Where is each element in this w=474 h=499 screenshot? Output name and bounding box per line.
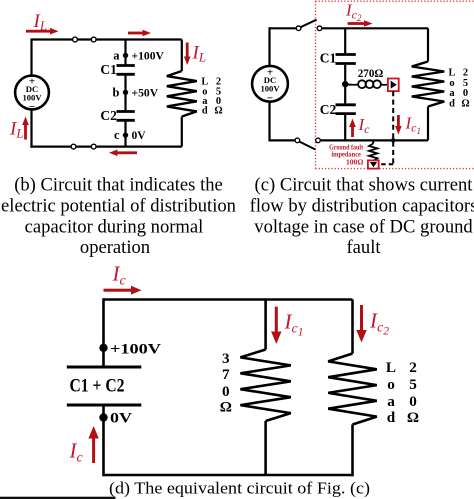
- node c (b): [123, 132, 128, 137]
- wire middle branch lower (b): [124, 120, 126, 146]
- source V2 DC 100V (c): [252, 66, 288, 102]
- svg-text:0V: 0V: [110, 410, 132, 427]
- ground fault impedance resistor 100ohm (c): [372, 140, 374, 143]
- wire top-left segment (c): [270, 27, 297, 29]
- connector circle top wire 1 (b): [73, 37, 78, 42]
- svg-text:3: 3: [222, 350, 230, 367]
- resistor Load 250ohm (c): [412, 62, 445, 107]
- source V1 DC 100V (b): [15, 76, 49, 110]
- svg-text:electric potential of distribu: electric potential of distribution: [1, 196, 237, 217]
- node a (b): [123, 53, 128, 58]
- svg-text:7: 7: [222, 366, 230, 383]
- junction dot dashed-bottom wire (c): [391, 138, 396, 143]
- connector box right-arrow (c): [388, 79, 399, 92]
- svg-text:0V: 0V: [132, 129, 147, 142]
- svg-text:o: o: [387, 376, 395, 393]
- switch bottom (c): [295, 138, 300, 143]
- current arrow IL bottom-left up (b): [22, 117, 29, 140]
- wire middle branch upper (b): [124, 40, 126, 66]
- svg-text:flow by distribution capacitor: flow by distribution capacitors: [250, 196, 474, 217]
- svg-text:c: c: [114, 128, 120, 142]
- dashed fault path vertical (c): [392, 91, 394, 164]
- svg-text:Ω: Ω: [214, 106, 222, 117]
- svg-text:a: a: [387, 393, 395, 410]
- wire top-right segment (c): [322, 27, 428, 29]
- resistor Load 250ohm (d): [328, 354, 377, 425]
- node b (b): [123, 90, 128, 95]
- capacitor C2 (b): [117, 112, 135, 121]
- wire bottom (d): [104, 474, 353, 477]
- resistor 370ohm (d): [240, 350, 290, 422]
- svg-text:C1: C1: [100, 62, 117, 77]
- current arrow Ic2 top (c): [348, 20, 373, 27]
- svg-text:(b) Circuit that indicates the: (b) Circuit that indicates the: [14, 175, 223, 196]
- svg-text:2: 2: [463, 67, 468, 78]
- svg-text:o: o: [449, 78, 454, 89]
- node between C1 C2 (c): [342, 81, 348, 87]
- wire top (d): [104, 298, 353, 301]
- svg-text:100Ω: 100Ω: [346, 157, 363, 166]
- svg-text:+50V: +50V: [132, 87, 159, 100]
- wire left upper (b): [30, 38, 32, 75]
- svg-text:−: −: [267, 93, 273, 105]
- capacitor C1 (c): [336, 55, 356, 64]
- wire middle branch lower (d): [264, 421, 267, 475]
- current arrow bottom left-pointing (b): [109, 150, 137, 157]
- current arrow IL right down (b): [184, 43, 191, 66]
- current arrow IL top-left (b): [26, 28, 59, 35]
- capacitor C1+C2 (d): [67, 367, 142, 405]
- svg-text:(c) Circuit that shows current: (c) Circuit that shows current: [255, 175, 474, 196]
- current arrow Ic up (c): [349, 119, 356, 138]
- page edge rule bottom-left: [0, 497, 116, 499]
- red dotted boundary DC ground fault region: [316, 1, 474, 168]
- connector box down-arrow (c): [368, 160, 379, 168]
- wire left lower (d): [102, 405, 105, 476]
- wire middle branch upper (d): [264, 300, 267, 350]
- svg-text:C2: C2: [100, 108, 117, 123]
- connector circle bottom wire 1 (b): [71, 144, 76, 149]
- wire right branch upper (d): [351, 300, 354, 354]
- svg-text:2: 2: [409, 359, 417, 376]
- svg-text:270Ω: 270Ω: [358, 67, 384, 80]
- svg-text:Ω: Ω: [220, 399, 232, 416]
- svg-text:L: L: [449, 67, 456, 78]
- svg-text:0: 0: [222, 383, 230, 400]
- wire bottom-right segment (c): [320, 139, 428, 141]
- wire left upper (c): [268, 27, 270, 66]
- wire bottom (b): [30, 146, 181, 148]
- dashed fault path horizontal (c): [380, 163, 393, 165]
- svg-text:−: −: [29, 101, 35, 113]
- wire right branch upper (b): [181, 40, 183, 72]
- resistor Load 250ohm (b): [167, 71, 197, 117]
- svg-text:operation: operation: [80, 237, 151, 258]
- wire left lower (c): [268, 102, 270, 142]
- svg-text:d: d: [449, 98, 455, 109]
- svg-text:5: 5: [409, 376, 417, 393]
- current arrow Ic1 down (d): [271, 307, 281, 344]
- current arrow mid-top (b): [128, 30, 151, 37]
- capacitor C1 (b): [117, 66, 135, 75]
- svg-text:b: b: [113, 86, 120, 100]
- wire right branch lower (d): [351, 425, 354, 477]
- svg-text:Ω: Ω: [407, 409, 419, 426]
- connector circle bottom wire 2 (b): [91, 144, 96, 149]
- wire top (b): [32, 38, 182, 40]
- current arrow Ic bottom up (d): [88, 426, 98, 463]
- wire middle branch mid (b): [124, 74, 126, 111]
- svg-text:5: 5: [463, 78, 468, 89]
- svg-text:(d) The equivalent circuit of: (d) The equivalent circuit of Fig. (c): [109, 479, 370, 498]
- current arrow Ic2 down (d): [356, 305, 366, 343]
- switch top (c): [296, 26, 301, 31]
- node 0V (d): [99, 413, 107, 421]
- wire right branch lower (b): [181, 117, 183, 147]
- svg-text:C1 + C2: C1 + C2: [70, 376, 125, 397]
- node +100V (d): [99, 344, 107, 352]
- wire left lower (b): [30, 110, 32, 148]
- connector circle top wire 2 (b): [91, 37, 96, 42]
- inductor 270ohm (c): [345, 80, 388, 88]
- wire middle branch lower (c): [344, 114, 346, 141]
- wire right branch upper (c): [427, 28, 429, 61]
- svg-text:Ω: Ω: [461, 98, 469, 109]
- svg-text:+100V: +100V: [132, 49, 165, 62]
- svg-text:+100V: +100V: [110, 341, 161, 358]
- wire middle branch upper (c): [344, 28, 346, 54]
- wire left upper (d): [102, 298, 105, 367]
- wire right branch lower (c): [427, 107, 429, 141]
- svg-text:C2: C2: [320, 102, 337, 117]
- svg-text:C1: C1: [320, 50, 337, 65]
- svg-text:d: d: [387, 409, 396, 426]
- svg-text:0: 0: [409, 393, 417, 410]
- current arrow Ic1 down (c): [395, 115, 402, 135]
- svg-text:fault: fault: [346, 237, 381, 258]
- svg-text:voltage in case of DC ground: voltage in case of DC ground: [254, 217, 473, 238]
- svg-text:capacitor during normal: capacitor during normal: [25, 217, 204, 238]
- svg-text:L: L: [386, 359, 396, 376]
- svg-text:d: d: [202, 106, 208, 117]
- wire bottom-left segment (c): [270, 139, 296, 141]
- current arrow Ic top (d): [104, 286, 142, 295]
- svg-text:a: a: [113, 48, 120, 62]
- capacitor C2 (c): [336, 105, 356, 114]
- wire middle branch mid (c): [344, 64, 346, 105]
